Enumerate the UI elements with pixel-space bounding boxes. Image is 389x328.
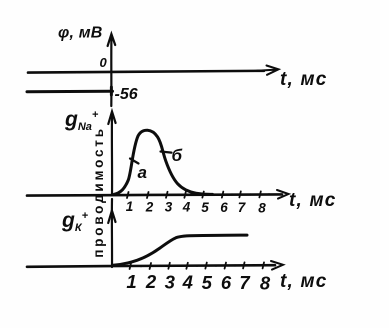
svg-text:2: 2	[145, 271, 157, 292]
phi vertical axis	[110, 35, 112, 106]
unit dots on gK baseline	[140, 264, 255, 267]
phi axis arrowhead	[108, 34, 116, 46]
gNa axis arrowhead	[108, 112, 115, 125]
-56 level line	[27, 90, 113, 94]
t axis line (phi chart)	[28, 71, 264, 73]
svg-text:gК+: gК+	[61, 209, 89, 234]
svg-text:1: 1	[126, 199, 134, 214]
svg-text:-56: -56	[115, 86, 138, 103]
svg-text:0: 0	[100, 55, 108, 70]
svg-text:6: 6	[220, 200, 228, 215]
gK tick numerals 1-8	[126, 271, 271, 294]
svg-text:6: 6	[221, 272, 232, 293]
svg-text:1: 1	[126, 271, 136, 292]
leader dash to label a	[130, 159, 139, 164]
gNa vertical axis	[111, 113, 113, 195]
svg-text:t, мс: t, мс	[280, 271, 328, 292]
leader dash to label b	[161, 152, 172, 153]
svg-text:8: 8	[258, 201, 266, 216]
junction node at -56	[110, 87, 113, 95]
gNa axis arrowhead right	[277, 190, 289, 199]
gNa t-axis baseline	[27, 194, 282, 195]
svg-text:3: 3	[165, 200, 173, 215]
gK axis arrowhead right	[271, 261, 283, 270]
gK axis arrowhead	[108, 211, 115, 224]
svg-text:3: 3	[165, 272, 176, 293]
svg-text:проводимость: проводимость	[91, 126, 106, 258]
svg-text:t, мс: t, мс	[280, 69, 328, 90]
gK t-axis baseline	[27, 265, 275, 267]
gK vertical axis	[111, 199, 113, 267]
svg-text:7: 7	[238, 200, 247, 215]
K conductance sigmoid curve	[113, 235, 247, 265]
svg-text:2: 2	[145, 200, 154, 215]
Na conductance bell curve	[114, 130, 213, 194]
svg-text:5: 5	[201, 200, 209, 215]
svg-text:φ, мВ: φ, мВ	[58, 25, 103, 42]
svg-text:б: б	[172, 146, 183, 165]
svg-text:а: а	[138, 163, 147, 182]
svg-text:8: 8	[260, 273, 271, 294]
svg-text:4: 4	[182, 200, 191, 215]
gNa tick numerals 1-8	[126, 199, 267, 216]
unit dots on gNa baseline	[212, 193, 270, 195]
svg-text:7: 7	[239, 272, 251, 293]
gK axis tick marks	[130, 262, 264, 269]
gNa axis tick marks	[127, 191, 261, 198]
svg-text:4: 4	[182, 272, 193, 293]
svg-text:5: 5	[202, 272, 213, 293]
svg-text:t, мс: t, мс	[289, 190, 337, 211]
t axis arrowhead (phi chart)	[257, 66, 279, 75]
